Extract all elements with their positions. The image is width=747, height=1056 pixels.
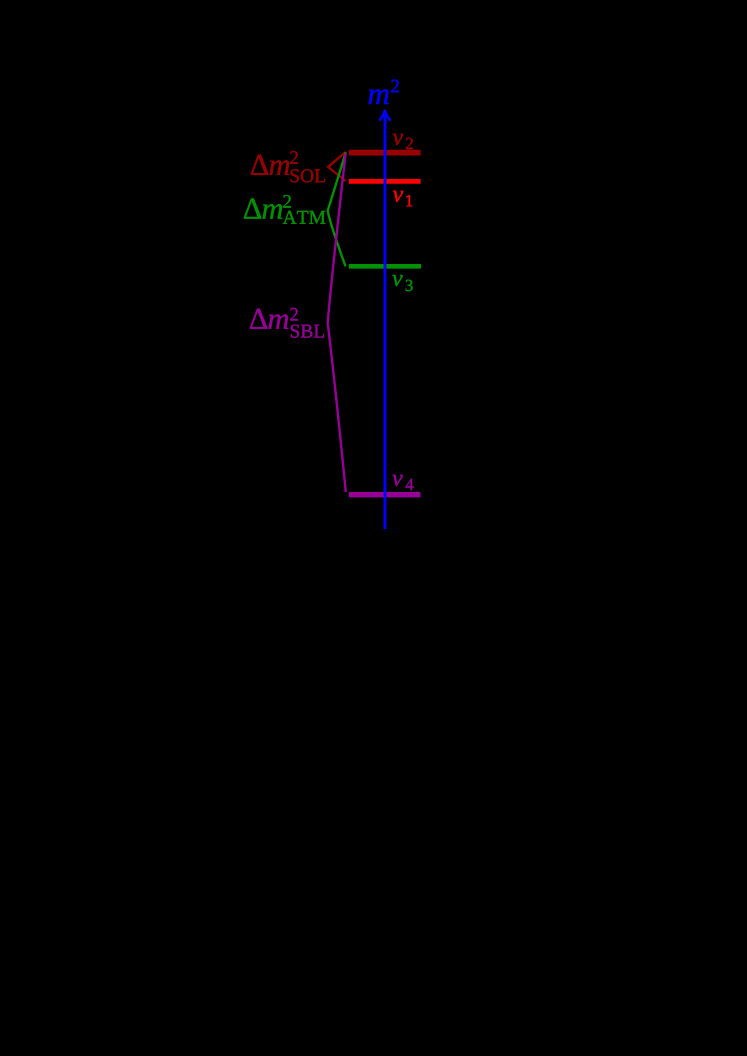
label subscript ATM [283,211,326,224]
brace for dm2 ATM (green curly) [328,152,346,266]
axis label m italic [369,89,389,104]
label subscript SOL [291,169,325,182]
label subscript 2 of nu2 [406,138,413,149]
brace for dm2 SOL (dark red angle bracket) [328,152,346,181]
label Delta of dm2SOL [251,155,268,175]
label subscript 3 of nu3 [406,280,413,292]
axis arrowhead [379,111,390,121]
label subscript SBL [291,325,324,338]
brace for dm2 SBL (magenta curly) [328,154,346,493]
label subscript 1 of nu1 [406,195,412,206]
level line nu4 (magenta) [349,492,421,497]
label nu of nu4 [392,475,402,486]
label superscript 2 of dm2SBL [290,308,298,321]
label subscript 4 of nu4 [406,479,414,490]
level line nu1 (red) [349,179,421,184]
label Delta of dm2SBL [250,309,267,329]
axis m^2 (blue vertical line) [384,111,387,530]
label nu of nu2 [393,134,403,145]
label nu of nu3 [392,275,402,286]
level line nu3 (green) [349,264,421,269]
level line nu2 (dark red) [349,150,421,156]
label nu of nu1 [393,191,403,202]
label m of dm2SOL [270,160,290,174]
label Delta of dm2ATM [244,199,261,219]
axis label superscript 2 [391,80,399,93]
label m of dm2SBL [269,314,289,328]
label superscript 2 of dm2SOL [290,151,298,164]
label m of dm2ATM [263,204,283,218]
label superscript 2 of dm2ATM [283,195,291,208]
